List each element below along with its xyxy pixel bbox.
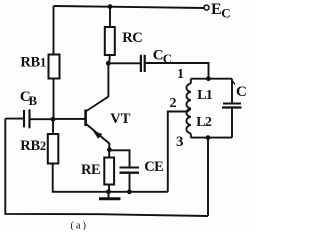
wire tap node 2 [168,109,191,192]
wire RC bottom to collector node [108,55,109,63]
svg-text:CE: CE [144,159,163,175]
label L2 [196,115,212,130]
junction dot tank top [206,76,211,81]
caption (a) [71,221,89,232]
resistor RC [105,27,115,55]
wire emitter node to CE [109,150,129,167]
resistor RE [104,158,114,185]
wire RB1 branch upper [53,6,55,55]
node 1 label [177,67,184,82]
label C tank [233,81,247,100]
wire tank bottom bar [191,137,232,139]
wire collector up [107,63,109,97]
transistor VT [86,97,110,150]
svg-text:2: 2 [170,96,177,111]
wire CE bottom [129,174,131,192]
label RB1 [20,54,46,70]
label RE [81,162,100,178]
svg-text:VT: VT [110,111,130,127]
wire base to transistor [53,118,85,120]
node base junction dot [51,117,56,122]
resistor RB2 [48,134,59,164]
label RC [122,30,142,46]
svg-text:C: C [236,84,247,100]
label L1 [197,88,213,103]
wire outer bottom rail and left edge [5,119,208,216]
inductor L1 [186,79,190,109]
wire emitter to RE [108,150,110,158]
wire CB to base node [31,118,54,120]
label Cc [153,47,172,66]
svg-text:E: E [211,1,222,18]
svg-text:L1: L1 [197,88,213,103]
wire ground rail [109,191,168,193]
svg-text:RC: RC [122,30,142,46]
label CB [20,89,37,108]
label Ec [211,1,231,21]
svg-text:(a): (a) [71,221,89,231]
wire collector node to Cc [108,62,140,64]
capacitor Cc [141,55,145,72]
wire left edge to CB [5,118,23,120]
wire RB2 bottom to ground rail [53,164,109,192]
junction dot RE bottom ground [106,189,111,194]
node 2 label [170,96,177,111]
capacitor C lower wire [231,108,233,138]
resistor RB1 [49,55,60,79]
svg-text:L2: L2 [196,115,212,130]
wire RE bottom [108,185,110,192]
wire tank top bar [191,78,232,80]
svg-text:RB1: RB1 [20,54,46,70]
label RB2 [20,138,46,154]
svg-text:RB2: RB2 [20,138,46,154]
wire RB1 bottom to base node [53,79,55,120]
svg-text:C: C [221,6,230,21]
inductor L2 [186,109,190,138]
svg-text:1: 1 [177,67,184,82]
junction dot tank bottom [206,135,211,140]
junction dot CE bottom [127,189,132,194]
node collector junction dot [106,61,111,66]
svg-text:RE: RE [81,162,100,178]
wire tank bottom to outer rail [207,138,209,216]
wire base node to RB2 [52,119,54,134]
wire RC branch top [109,7,111,27]
capacitor C tank right branch wire upper [231,79,233,103]
node emitter junction dot [107,147,112,152]
junction dot top rail to RC [108,4,113,9]
capacitor CE [120,168,140,173]
label CE [144,159,163,175]
capacitor CB [24,109,30,128]
wire Cc to tank top [146,63,209,79]
top supply rail wire [54,6,204,8]
capacitor C plates [222,104,242,108]
svg-text:B: B [29,94,37,108]
svg-text:3: 3 [176,134,184,150]
power terminal Ec circle [204,5,209,10]
ground [99,192,121,199]
label VT [110,111,130,127]
node 3 label [176,134,184,150]
